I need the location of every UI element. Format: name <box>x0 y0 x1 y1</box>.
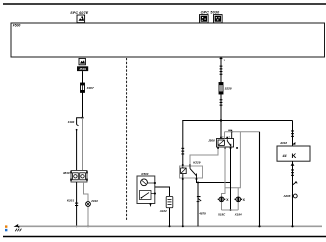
svg-text:4879: 4879 <box>198 211 206 215</box>
wire: J519 to fuse F007 <box>82 71 84 83</box>
wire: resistor to ground bus <box>169 208 171 227</box>
node at distribution rail <box>220 119 222 121</box>
main feed wire from box <box>220 57 222 139</box>
icon page top-right 1 <box>200 15 209 23</box>
ground symbol <box>14 224 22 231</box>
junction dots on bus <box>76 225 78 227</box>
fuse S228 <box>219 83 223 95</box>
svg-text:J500: J500 <box>208 139 215 143</box>
svg-text:X19C: X19C <box>217 213 226 217</box>
pump K500 <box>137 176 156 205</box>
svg-text:384C: 384C <box>63 171 71 175</box>
svg-text:J519: J519 <box>79 67 86 71</box>
svg-text:K: K <box>292 153 297 160</box>
lamp X194 <box>235 197 246 202</box>
inline connector stack lower <box>220 99 223 106</box>
svg-text:SPC 607E: SPC 607E <box>70 11 88 15</box>
node above connector 4879 <box>197 182 199 184</box>
svg-text:A018: A018 <box>279 141 287 145</box>
wire: K500 output to resistor <box>155 187 170 196</box>
svg-text:K201: K201 <box>67 198 75 202</box>
dashed separator line <box>126 58 128 221</box>
bus bar box F500 <box>11 23 325 57</box>
icon page top-right 2 <box>214 15 223 23</box>
switch 1394 <box>76 118 83 131</box>
inline connector stack horn lower <box>291 169 294 176</box>
svg-text:K500: K500 <box>141 172 148 176</box>
inline connector stack upper <box>220 66 223 75</box>
distribution rail wire <box>182 120 292 122</box>
wire: J500 pin centre drop (black) <box>230 147 232 210</box>
connector 4879 <box>197 196 202 202</box>
relay K229 <box>180 164 203 180</box>
wire: horn to ground bus <box>292 161 294 226</box>
icon below box (left tap) <box>79 58 85 64</box>
connector 384C <box>70 171 88 183</box>
svg-text:1394: 1394 <box>68 120 75 124</box>
svg-text:A208: A208 <box>282 194 290 198</box>
wire: fuse to switch node <box>82 92 84 117</box>
splice K201 ticks <box>75 203 78 206</box>
label plate J519 <box>77 66 88 71</box>
svg-text:A102: A102 <box>159 209 167 213</box>
wire: K229 coil to ground bus <box>182 178 184 226</box>
svg-text:2010: 2010 <box>90 199 98 203</box>
svg-text:OPC 5030: OPC 5030 <box>201 10 221 14</box>
splice half-arrow <box>293 182 298 185</box>
horn H (44 K) <box>277 146 310 161</box>
wire: gray riser to J500 top pin <box>224 132 226 139</box>
ground colour code blue <box>5 229 7 231</box>
wire: node down to connector 384C (gray) <box>82 118 84 171</box>
relay J500 <box>217 137 238 149</box>
wire: 384C left pin to ground bus <box>76 182 78 226</box>
frame top border <box>3 3 326 5</box>
pin stub K500 bottom <box>150 204 152 207</box>
resistor A102 <box>166 196 173 207</box>
ground bus (gray) <box>19 225 322 227</box>
wire: right drop to ground bus <box>259 132 261 227</box>
wire: 384C right pin jog to lamp 2010 (gray) <box>84 182 89 226</box>
wire: lamp return bottom (gray) <box>222 209 239 211</box>
wire: K229 contact feed to J500 pin (gray) <box>190 147 218 166</box>
inline connector stack horn upper <box>291 130 294 137</box>
wire: down to connector 4879 <box>197 183 199 227</box>
wire: switch lower to connector 384C (black) <box>76 130 78 171</box>
wire: J500 pin to lamp W1 (gray) <box>222 147 226 210</box>
pin arrow A018 <box>292 142 295 145</box>
lamp 2010 <box>86 202 91 207</box>
connector A208 <box>293 194 298 198</box>
lamp X190 <box>218 197 230 202</box>
svg-text:F500: F500 <box>13 24 21 28</box>
svg-text:X194: X194 <box>234 213 242 217</box>
frame bottom border <box>3 236 326 238</box>
fuse F007 <box>81 83 85 92</box>
wire: rail down to K229 coil <box>182 121 184 169</box>
inline connector stack K229 branch <box>181 148 184 155</box>
node at switch <box>81 117 83 119</box>
wire: gray drop to lamp W2 <box>225 132 240 188</box>
wire: gray header to right drop <box>225 131 260 133</box>
svg-text:K229: K229 <box>193 161 201 165</box>
wire: K229 output rail <box>197 178 231 183</box>
svg-text:44: 44 <box>282 154 287 158</box>
pin mark horn bottom <box>291 163 295 166</box>
tap mark at box <box>220 58 223 59</box>
ground colour code orange <box>5 225 7 227</box>
icon connector-view top-left <box>77 15 85 23</box>
svg-text:F007: F007 <box>87 86 94 90</box>
wire: rail right corner down to horn <box>292 121 294 147</box>
svg-text:S228: S228 <box>225 87 232 91</box>
wire: J500 top pin 1 riser (black corner) <box>228 130 232 138</box>
